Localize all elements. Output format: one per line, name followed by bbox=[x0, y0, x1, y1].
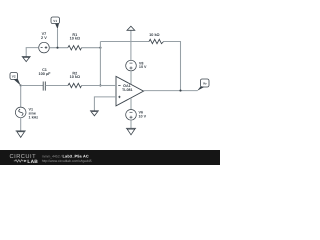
wire feedback left bbox=[100, 41, 149, 43]
svg-text:10 V: 10 V bbox=[139, 65, 147, 69]
ground (below V1) bbox=[16, 131, 26, 138]
wire op-amp output bbox=[144, 90, 198, 92]
ground (left of V7) bbox=[22, 57, 31, 62]
svg-text:1 kHz: 1 kHz bbox=[29, 116, 39, 120]
junction (V1 flag / top wire) bbox=[56, 47, 58, 49]
svg-text:10 V: 10 V bbox=[139, 115, 147, 119]
footer bar bbox=[0, 150, 220, 165]
wire V7 right to R1 bbox=[49, 47, 68, 49]
wire V2 node to C1 bbox=[21, 85, 44, 87]
op-amp OA1 TL081 bbox=[116, 76, 144, 106]
wire V7 left bbox=[26, 48, 39, 57]
node flag Vo bbox=[197, 79, 209, 91]
svg-text:Vo: Vo bbox=[203, 81, 207, 85]
wire summing node vertical bbox=[99, 42, 101, 86]
CircuitLab logo bbox=[10, 154, 39, 165]
svg-text:10 kΩ: 10 kΩ bbox=[149, 33, 159, 37]
wire feedback right + down to output bbox=[164, 42, 181, 91]
svg-text:LAB: LAB bbox=[27, 159, 38, 165]
node flag V2 bbox=[10, 73, 21, 86]
svg-text:10 kΩ: 10 kΩ bbox=[70, 37, 80, 41]
resistor R1 bbox=[68, 33, 82, 50]
svg-text:http://www.circuitlab.com/c/tg: http://www.circuitlab.com/c/tged45 bbox=[42, 159, 92, 163]
junction (top wire / vertical) bbox=[99, 47, 101, 49]
wire V8 to op-amp V+ pin bbox=[130, 71, 132, 84]
svg-text:CIRCUIT: CIRCUIT bbox=[10, 154, 37, 160]
svg-text:V2: V2 bbox=[12, 75, 16, 79]
svg-text:10 kΩ: 10 kΩ bbox=[70, 75, 80, 79]
wire R1 to summing node bbox=[82, 47, 101, 49]
voltage source V7 bbox=[39, 32, 50, 53]
wire V1 to ground bbox=[20, 118, 22, 131]
wire C1 to R2 bbox=[45, 85, 68, 87]
wire op-amp minus input bbox=[100, 85, 116, 87]
wire op-amp plus input to ground bbox=[94, 97, 116, 111]
ground (plus input) bbox=[90, 111, 99, 116]
voltage source V8 bbox=[126, 60, 147, 71]
svg-text:2 V: 2 V bbox=[41, 36, 47, 40]
wire V6 to ground bbox=[130, 120, 132, 128]
voltage source V1 (sine) bbox=[15, 107, 38, 119]
svg-text:100 µF: 100 µF bbox=[39, 72, 52, 76]
ground (below V6) bbox=[126, 128, 136, 135]
wire R2 to op-amp bbox=[82, 85, 117, 87]
wire flag V1 stem bbox=[57, 29, 59, 48]
svg-text:mmm_4452 / Lab3_P5a AC: mmm_4452 / Lab3_P5a AC bbox=[42, 155, 89, 159]
junction (V2 flag / middle wire) bbox=[20, 84, 22, 86]
junction (summing node / minus input) bbox=[99, 84, 101, 86]
svg-text:TL081: TL081 bbox=[122, 88, 133, 92]
voltage source V6 bbox=[126, 110, 147, 121]
resistor R2 bbox=[68, 71, 82, 87]
svg-text:V1: V1 bbox=[53, 19, 57, 23]
power arrow (V+) bbox=[127, 26, 135, 60]
node flag V1 bbox=[51, 17, 60, 29]
junction (feedback / output) bbox=[179, 90, 181, 92]
capacitor C1 bbox=[39, 68, 52, 91]
resistor Rf 10k feedback bbox=[149, 33, 164, 44]
wire op-amp bottom pin bbox=[130, 98, 132, 110]
wire V2 node down to V1 bbox=[20, 86, 22, 108]
